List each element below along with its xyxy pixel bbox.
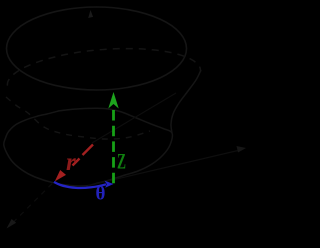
tangent (velocity) dashed line from point P to lower left: [12, 184, 52, 224]
theta angle arc (blue): [54, 182, 106, 188]
helix final turn (solid tilted loop with point P): [4, 108, 173, 186]
helix turn 3 back (dashed arc through midfield): [6, 97, 150, 139]
helix turn 2 front (solid descending right side): [171, 70, 201, 133]
svg-text:r: r: [66, 149, 76, 176]
helix turn 2 back (dashed arc): [7, 49, 200, 86]
tangent arrowhead at bottom left: [7, 219, 17, 229]
helix turn 1 (top ellipse, solid): [7, 7, 187, 90]
svg-text:Z: Z: [117, 149, 126, 174]
theta arrowhead (blue): [105, 181, 114, 188]
r radial dashed red vector: [73, 145, 94, 166]
direction arrowhead on turn 1 apex: [88, 10, 93, 18]
svg-text:θ: θ: [96, 184, 106, 205]
r arrowhead (red) at point P: [55, 170, 66, 181]
Z axis arrowhead (green): [108, 92, 118, 109]
thin slant guide line W: [92, 93, 176, 143]
Z axis dashed green line: [112, 110, 115, 184]
x-axis reference line to the right: [88, 151, 238, 186]
x-axis arrowhead at right edge: [237, 146, 247, 153]
